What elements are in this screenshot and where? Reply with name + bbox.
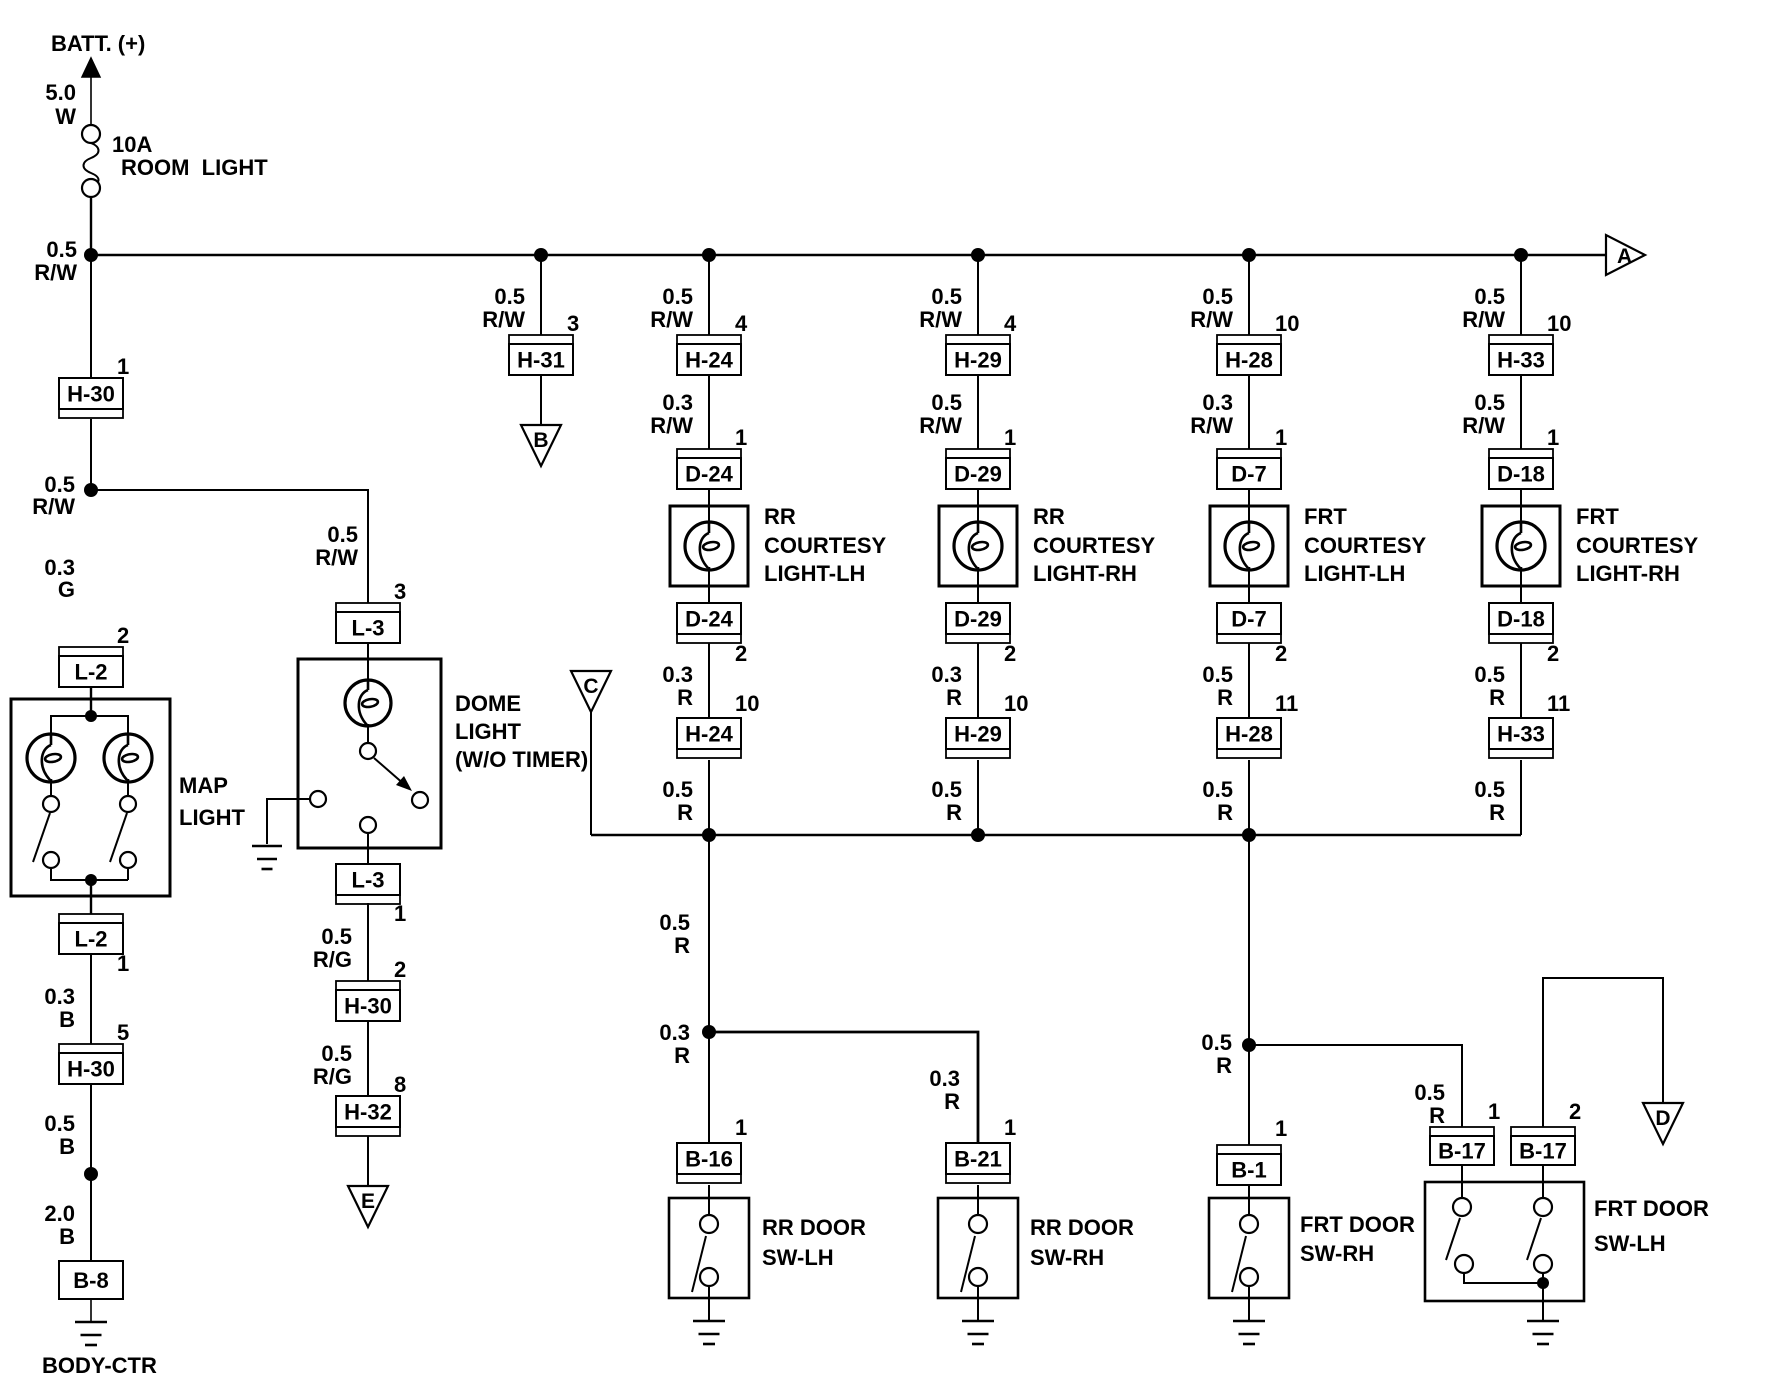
switch lever with arrow — [374, 758, 412, 791]
connector D-24 pin 2 — [677, 603, 741, 643]
wire — [127, 868, 129, 880]
svg-text:B-8: B-8 — [73, 1268, 108, 1293]
connector B-16 pin 1 — [677, 1143, 741, 1183]
svg-text:SW-LH: SW-LH — [1594, 1231, 1666, 1256]
svg-text:R/G: R/G — [313, 947, 352, 972]
svg-text:0.5: 0.5 — [1474, 777, 1505, 802]
device label FRT COURTESY LIGHT-RH — [1576, 504, 1699, 586]
device label FRT COURTESY LIGHT-LH — [1304, 504, 1427, 586]
svg-text:1: 1 — [1275, 1116, 1287, 1141]
wire — [90, 77, 92, 125]
svg-text:10: 10 — [1004, 691, 1028, 716]
connector H-32 pin 8 — [336, 1096, 400, 1136]
svg-text:D-24: D-24 — [685, 607, 733, 632]
svg-text:B-16: B-16 — [685, 1147, 733, 1172]
switch contact — [1453, 1198, 1471, 1216]
switch contact — [969, 1268, 987, 1286]
wire size label 2.0 B — [44, 1201, 75, 1249]
wire — [1542, 1283, 1544, 1321]
wire — [977, 570, 979, 603]
wire size label 0.3 B — [44, 984, 75, 1032]
switch output contact — [360, 817, 376, 833]
wire — [1520, 643, 1522, 718]
wire — [977, 255, 979, 335]
svg-text:R/W: R/W — [34, 260, 77, 285]
svg-text:G: G — [58, 577, 75, 602]
ground — [1527, 1320, 1559, 1323]
switch contact — [1534, 1255, 1552, 1273]
svg-text:R/W: R/W — [1190, 413, 1233, 438]
svg-text:B: B — [59, 1134, 75, 1159]
svg-text:D-18: D-18 — [1497, 607, 1545, 632]
svg-text:0.5: 0.5 — [1202, 777, 1233, 802]
svg-text:1: 1 — [735, 425, 747, 450]
ground — [693, 1320, 725, 1323]
ground BODY-CTR — [75, 1321, 107, 1324]
svg-text:4: 4 — [735, 311, 748, 336]
arrow to battery positive — [82, 58, 100, 77]
wire size label 0.5 R/G — [313, 924, 352, 972]
svg-text:2: 2 — [1275, 641, 1287, 666]
wire — [1248, 570, 1250, 603]
wire — [977, 489, 979, 523]
wire — [1520, 760, 1522, 835]
svg-text:11: 11 — [1275, 691, 1298, 716]
wire — [90, 688, 92, 716]
svg-text:LIGHT-LH: LIGHT-LH — [764, 561, 865, 586]
wire — [1248, 835, 1250, 1145]
svg-text:H-33: H-33 — [1497, 722, 1545, 747]
svg-text:LIGHT-RH: LIGHT-RH — [1576, 561, 1680, 586]
svg-text:L-2: L-2 — [75, 660, 108, 685]
svg-text:COURTESY: COURTESY — [1304, 533, 1427, 558]
svg-text:2: 2 — [117, 623, 129, 648]
svg-text:0.5: 0.5 — [931, 390, 962, 415]
wire — [708, 255, 710, 335]
switch lever — [33, 813, 50, 862]
wire — [708, 375, 710, 449]
svg-text:R/W: R/W — [650, 307, 693, 332]
svg-text:D-18: D-18 — [1497, 462, 1545, 487]
switch contact — [700, 1215, 718, 1233]
svg-text:0.5: 0.5 — [327, 522, 358, 547]
wire size label 0.3 R/W — [1190, 390, 1233, 438]
connector B-17 pin 1 — [1430, 1127, 1494, 1165]
svg-text:0.3: 0.3 — [1202, 390, 1233, 415]
svg-text:4: 4 — [1004, 311, 1017, 336]
svg-text:H-28: H-28 — [1225, 348, 1273, 373]
bulb RR LIGHT-LH — [685, 522, 733, 570]
svg-text:8: 8 — [394, 1072, 406, 1097]
wire — [977, 643, 979, 718]
svg-text:0.5: 0.5 — [1201, 1030, 1232, 1055]
ground — [1233, 1320, 1265, 1323]
svg-text:2: 2 — [735, 641, 747, 666]
courtesy light device box — [939, 506, 1017, 586]
svg-text:L-3: L-3 — [352, 616, 385, 641]
wire — [1520, 570, 1522, 603]
connector H-33 pin 11 — [1489, 718, 1553, 758]
svg-text:0.3: 0.3 — [44, 984, 75, 1009]
svg-text:R: R — [674, 933, 690, 958]
junction — [534, 248, 548, 262]
svg-text:MAP: MAP — [179, 773, 228, 798]
svg-text:2.0: 2.0 — [44, 1201, 75, 1226]
bulb dome light — [345, 680, 391, 726]
wire size label 0.3 G — [44, 555, 75, 602]
svg-text:0.5: 0.5 — [46, 237, 77, 262]
svg-text:3: 3 — [567, 311, 579, 336]
ground — [962, 1320, 994, 1323]
connector H-29 pin 4 — [946, 335, 1010, 375]
svg-text:FRT: FRT — [1576, 504, 1619, 529]
svg-text:H-30: H-30 — [344, 994, 392, 1019]
svg-text:B-21: B-21 — [954, 1147, 1002, 1172]
svg-text:BODY-CTR: BODY-CTR — [42, 1353, 157, 1378]
svg-text:D-7: D-7 — [1231, 462, 1266, 487]
svg-text:10A: 10A — [112, 132, 152, 157]
connector L-2 pin 2 — [59, 647, 123, 687]
svg-text:0.3: 0.3 — [662, 662, 693, 687]
switch contact — [43, 796, 59, 812]
switch contact — [43, 852, 59, 868]
svg-text:1: 1 — [394, 901, 406, 926]
ground dome light case — [252, 845, 282, 848]
bulb map light left — [27, 734, 75, 782]
svg-text:R: R — [677, 800, 693, 825]
connector D-24 pin 1 — [677, 449, 741, 489]
wire size label 0.5 R — [1414, 1080, 1445, 1128]
switch contact — [1240, 1268, 1258, 1286]
wire — [590, 712, 592, 835]
svg-text:2: 2 — [1569, 1099, 1581, 1124]
svg-text:0.3: 0.3 — [929, 1066, 960, 1091]
wire — [50, 782, 52, 796]
wire size label 0.3 R/W — [650, 390, 693, 438]
wire size label 0.3 R — [662, 662, 693, 710]
switch contact — [969, 1215, 987, 1233]
wire — [367, 726, 369, 743]
svg-text:1: 1 — [1488, 1099, 1500, 1124]
connector H-30 pin 1 — [59, 378, 123, 418]
switch common contact — [360, 743, 376, 759]
svg-text:H-24: H-24 — [685, 722, 733, 747]
wire — [540, 255, 542, 335]
svg-text:R: R — [1216, 1053, 1232, 1078]
wire — [367, 903, 369, 981]
connector D-18 pin 1 — [1489, 449, 1553, 489]
switch contact — [1455, 1255, 1473, 1273]
svg-text:R: R — [674, 1043, 690, 1068]
svg-text:R/W: R/W — [32, 494, 75, 519]
arrow C off-page — [571, 671, 611, 712]
wire to arrow D — [1543, 978, 1663, 1127]
junction inside map light — [85, 874, 97, 886]
device label RR DOOR SW-RH — [1030, 1215, 1134, 1270]
switch contact — [1534, 1198, 1552, 1216]
connector H-24 pin 4 — [677, 335, 741, 375]
connector H-28 pin 10 — [1217, 335, 1281, 375]
svg-text:R/W: R/W — [1462, 307, 1505, 332]
svg-text:D-29: D-29 — [954, 462, 1002, 487]
courtesy light device box — [1210, 506, 1288, 586]
connector H-30 pin 5 — [59, 1044, 123, 1084]
svg-text:R/G: R/G — [313, 1064, 352, 1089]
junction — [1242, 828, 1256, 842]
svg-text:1: 1 — [117, 951, 129, 976]
wire — [90, 255, 92, 378]
svg-text:0.5: 0.5 — [1474, 390, 1505, 415]
svg-text:E: E — [361, 1190, 375, 1213]
svg-text:R: R — [1217, 685, 1233, 710]
svg-text:R: R — [1217, 800, 1233, 825]
switch lever — [692, 1236, 706, 1292]
wire size label 0.5 R/W — [650, 284, 693, 332]
connector H-28 pin 11 — [1217, 718, 1281, 758]
connector L-3 pin 3 — [336, 603, 400, 643]
switch lever — [110, 813, 127, 862]
wire size label 5.0 W — [45, 80, 76, 129]
connector B-17 pin 2 — [1511, 1127, 1575, 1165]
wire — [1248, 643, 1250, 718]
svg-text:DOME: DOME — [455, 691, 521, 716]
wire size label 0.3 R — [659, 1020, 690, 1068]
wire — [90, 1299, 92, 1322]
svg-text:A: A — [1617, 245, 1632, 268]
svg-text:1: 1 — [735, 1115, 747, 1140]
svg-text:H-29: H-29 — [954, 348, 1002, 373]
wire — [977, 1185, 979, 1215]
wire top supply bus — [91, 254, 1606, 256]
svg-text:R: R — [1429, 1103, 1445, 1128]
svg-text:R/W: R/W — [1462, 413, 1505, 438]
svg-text:0.5: 0.5 — [321, 924, 352, 949]
device label RR COURTESY LIGHT-RH — [1033, 504, 1156, 586]
wire size label 0.5 R — [1474, 777, 1505, 825]
svg-text:5.0: 5.0 — [45, 80, 76, 105]
device label MAP LIGHT — [179, 773, 246, 830]
svg-text:0.5: 0.5 — [1202, 284, 1233, 309]
arrow D off-page — [1643, 1103, 1683, 1144]
svg-text:0.5: 0.5 — [662, 284, 693, 309]
junction inside map light — [85, 710, 97, 722]
svg-text:1: 1 — [1004, 1115, 1016, 1140]
svg-text:0.3: 0.3 — [931, 662, 962, 687]
svg-text:COURTESY: COURTESY — [1033, 533, 1156, 558]
svg-text:C: C — [583, 675, 598, 698]
svg-text:B: B — [59, 1224, 75, 1249]
wire size label 0.3 R — [929, 1066, 960, 1114]
svg-text:FRT DOOR: FRT DOOR — [1300, 1212, 1415, 1237]
wire branch to dome light — [91, 490, 368, 603]
wire — [90, 197, 92, 255]
svg-text:ROOM LIGHT: ROOM LIGHT — [121, 155, 268, 180]
wire — [708, 643, 710, 718]
junction — [1537, 1277, 1549, 1289]
wire — [977, 760, 979, 835]
wire size label 0.5 R/W — [919, 390, 962, 438]
svg-text:SW-RH: SW-RH — [1030, 1245, 1104, 1270]
svg-text:11: 11 — [1547, 691, 1570, 716]
wire — [51, 716, 128, 734]
wire — [1248, 1286, 1250, 1321]
svg-text:0.5: 0.5 — [931, 284, 962, 309]
switch lever — [1232, 1236, 1246, 1292]
svg-text:R/W: R/W — [919, 413, 962, 438]
svg-text:B: B — [59, 1007, 75, 1032]
door switch box RR DOOR SW-RH — [938, 1198, 1018, 1298]
svg-text:0.5: 0.5 — [659, 910, 690, 935]
svg-text:0.5: 0.5 — [44, 1111, 75, 1136]
svg-text:2: 2 — [1547, 641, 1559, 666]
svg-text:B-1: B-1 — [1231, 1158, 1266, 1183]
svg-text:R: R — [1489, 800, 1505, 825]
arrow B off-page — [521, 425, 561, 466]
svg-text:R/W: R/W — [1190, 307, 1233, 332]
bulb FRT LIGHT-RH — [1497, 522, 1545, 570]
wire size label 0.5 R/W — [34, 237, 77, 285]
wire — [1248, 255, 1250, 335]
dome light device box — [298, 659, 441, 848]
door switch box FRT DOOR SW-RH — [1209, 1198, 1289, 1298]
svg-text:RR DOOR: RR DOOR — [1030, 1215, 1134, 1240]
svg-text:COURTESY: COURTESY — [764, 533, 887, 558]
wire — [1248, 375, 1250, 449]
svg-text:0.5: 0.5 — [1202, 662, 1233, 687]
door switch box RR DOOR SW-LH — [669, 1198, 749, 1298]
svg-text:0.3: 0.3 — [662, 390, 693, 415]
wire branch to RR door switch RH — [709, 1032, 978, 1143]
svg-text:D-7: D-7 — [1231, 607, 1266, 632]
connector H-33 pin 10 — [1489, 335, 1553, 375]
wire — [1248, 1185, 1250, 1215]
svg-text:2: 2 — [1004, 641, 1016, 666]
wire — [127, 782, 129, 796]
wire size label 0.5 R/W — [1462, 390, 1505, 438]
svg-text:B-17: B-17 — [1519, 1139, 1567, 1164]
connector B-21 pin 1 — [946, 1143, 1010, 1183]
connector H-29 pin 10 — [946, 718, 1010, 758]
svg-text:LIGHT-LH: LIGHT-LH — [1304, 561, 1405, 586]
wire size label 0.5 R — [931, 777, 962, 825]
wire — [367, 643, 369, 680]
svg-text:RR DOOR: RR DOOR — [762, 1215, 866, 1240]
wire — [708, 1286, 710, 1321]
bulb RR LIGHT-RH — [954, 522, 1002, 570]
connector L-3 pin 1 — [336, 864, 400, 904]
junction — [702, 248, 716, 262]
svg-text:FRT DOOR: FRT DOOR — [1594, 1196, 1709, 1221]
svg-text:10: 10 — [735, 691, 759, 716]
svg-text:H-30: H-30 — [67, 382, 115, 407]
svg-text:D-29: D-29 — [954, 607, 1002, 632]
svg-text:0.5: 0.5 — [494, 284, 525, 309]
wire — [708, 760, 710, 835]
wire — [367, 833, 369, 864]
svg-text:BATT. (+): BATT. (+) — [51, 31, 145, 56]
svg-text:1: 1 — [117, 354, 129, 379]
svg-text:R: R — [946, 800, 962, 825]
wire size label 0.5 R/W — [32, 472, 75, 519]
junction — [84, 1167, 98, 1181]
switch lever — [1527, 1218, 1541, 1260]
svg-text:L-2: L-2 — [75, 927, 108, 952]
junction — [1514, 248, 1528, 262]
device label FRT DOOR SW-RH — [1300, 1212, 1415, 1266]
svg-text:0.5: 0.5 — [1414, 1080, 1445, 1105]
junction — [702, 828, 716, 842]
wire — [540, 375, 542, 425]
switch contact — [412, 792, 428, 808]
wire — [1520, 375, 1522, 449]
wire — [708, 835, 710, 1143]
svg-text:0.5: 0.5 — [662, 777, 693, 802]
svg-text:LIGHT: LIGHT — [179, 805, 246, 830]
wire — [51, 868, 128, 880]
svg-text:D-24: D-24 — [685, 462, 733, 487]
wire — [1520, 255, 1522, 335]
connector B-8 — [59, 1261, 123, 1299]
wire size label 0.5 R — [1202, 662, 1233, 710]
bulb FRT LIGHT-LH — [1225, 522, 1273, 570]
svg-text:2: 2 — [394, 957, 406, 982]
wire — [977, 1286, 979, 1321]
courtesy light device box — [1482, 506, 1560, 586]
device label RR DOOR SW-LH — [762, 1215, 866, 1270]
svg-text:L-3: L-3 — [352, 868, 385, 893]
connector D-7 pin 1 — [1217, 449, 1281, 489]
wire size label 0.5 R — [659, 910, 690, 958]
junction — [971, 828, 985, 842]
svg-text:B: B — [533, 429, 548, 452]
fuse 10A ROOM LIGHT — [82, 125, 100, 197]
wire size label 0.5 R/W — [919, 284, 962, 332]
svg-text:LIGHT-RH: LIGHT-RH — [1033, 561, 1137, 586]
wire — [708, 570, 710, 603]
svg-text:COURTESY: COURTESY — [1576, 533, 1699, 558]
svg-text:SW-LH: SW-LH — [762, 1245, 834, 1270]
junction — [702, 1025, 716, 1039]
svg-text:RR: RR — [764, 504, 796, 529]
switch contact — [1240, 1215, 1258, 1233]
svg-text:R/W: R/W — [315, 545, 358, 570]
svg-text:0.5: 0.5 — [1474, 284, 1505, 309]
arrow E off-page — [348, 1186, 388, 1227]
switch lever — [1446, 1218, 1460, 1260]
wire size label 0.5 B — [44, 1111, 75, 1159]
bulb map light right — [104, 734, 152, 782]
wire size label 0.5 R/W — [1190, 284, 1233, 332]
arrow A off-page — [1606, 235, 1645, 275]
wire — [90, 954, 92, 1044]
wire size label 0.5 R/W — [315, 522, 358, 570]
svg-text:H-28: H-28 — [1225, 722, 1273, 747]
switch contact — [700, 1268, 718, 1286]
device label DOME LIGHT (W/O TIMER) — [455, 691, 588, 772]
svg-text:H-33: H-33 — [1497, 348, 1545, 373]
wire size label 0.5 R — [1474, 662, 1505, 710]
junction — [1242, 248, 1256, 262]
connector H-31 pin 3 — [509, 335, 573, 375]
wire size label 0.3 R — [931, 662, 962, 710]
svg-text:LIGHT: LIGHT — [455, 719, 522, 744]
wire to case ground — [267, 799, 310, 844]
junction — [84, 248, 98, 262]
connector H-30 pin 2 — [336, 981, 400, 1021]
switch lever — [961, 1236, 975, 1292]
svg-text:B-17: B-17 — [1438, 1139, 1486, 1164]
wire size label 0.5 R/G — [313, 1041, 352, 1089]
